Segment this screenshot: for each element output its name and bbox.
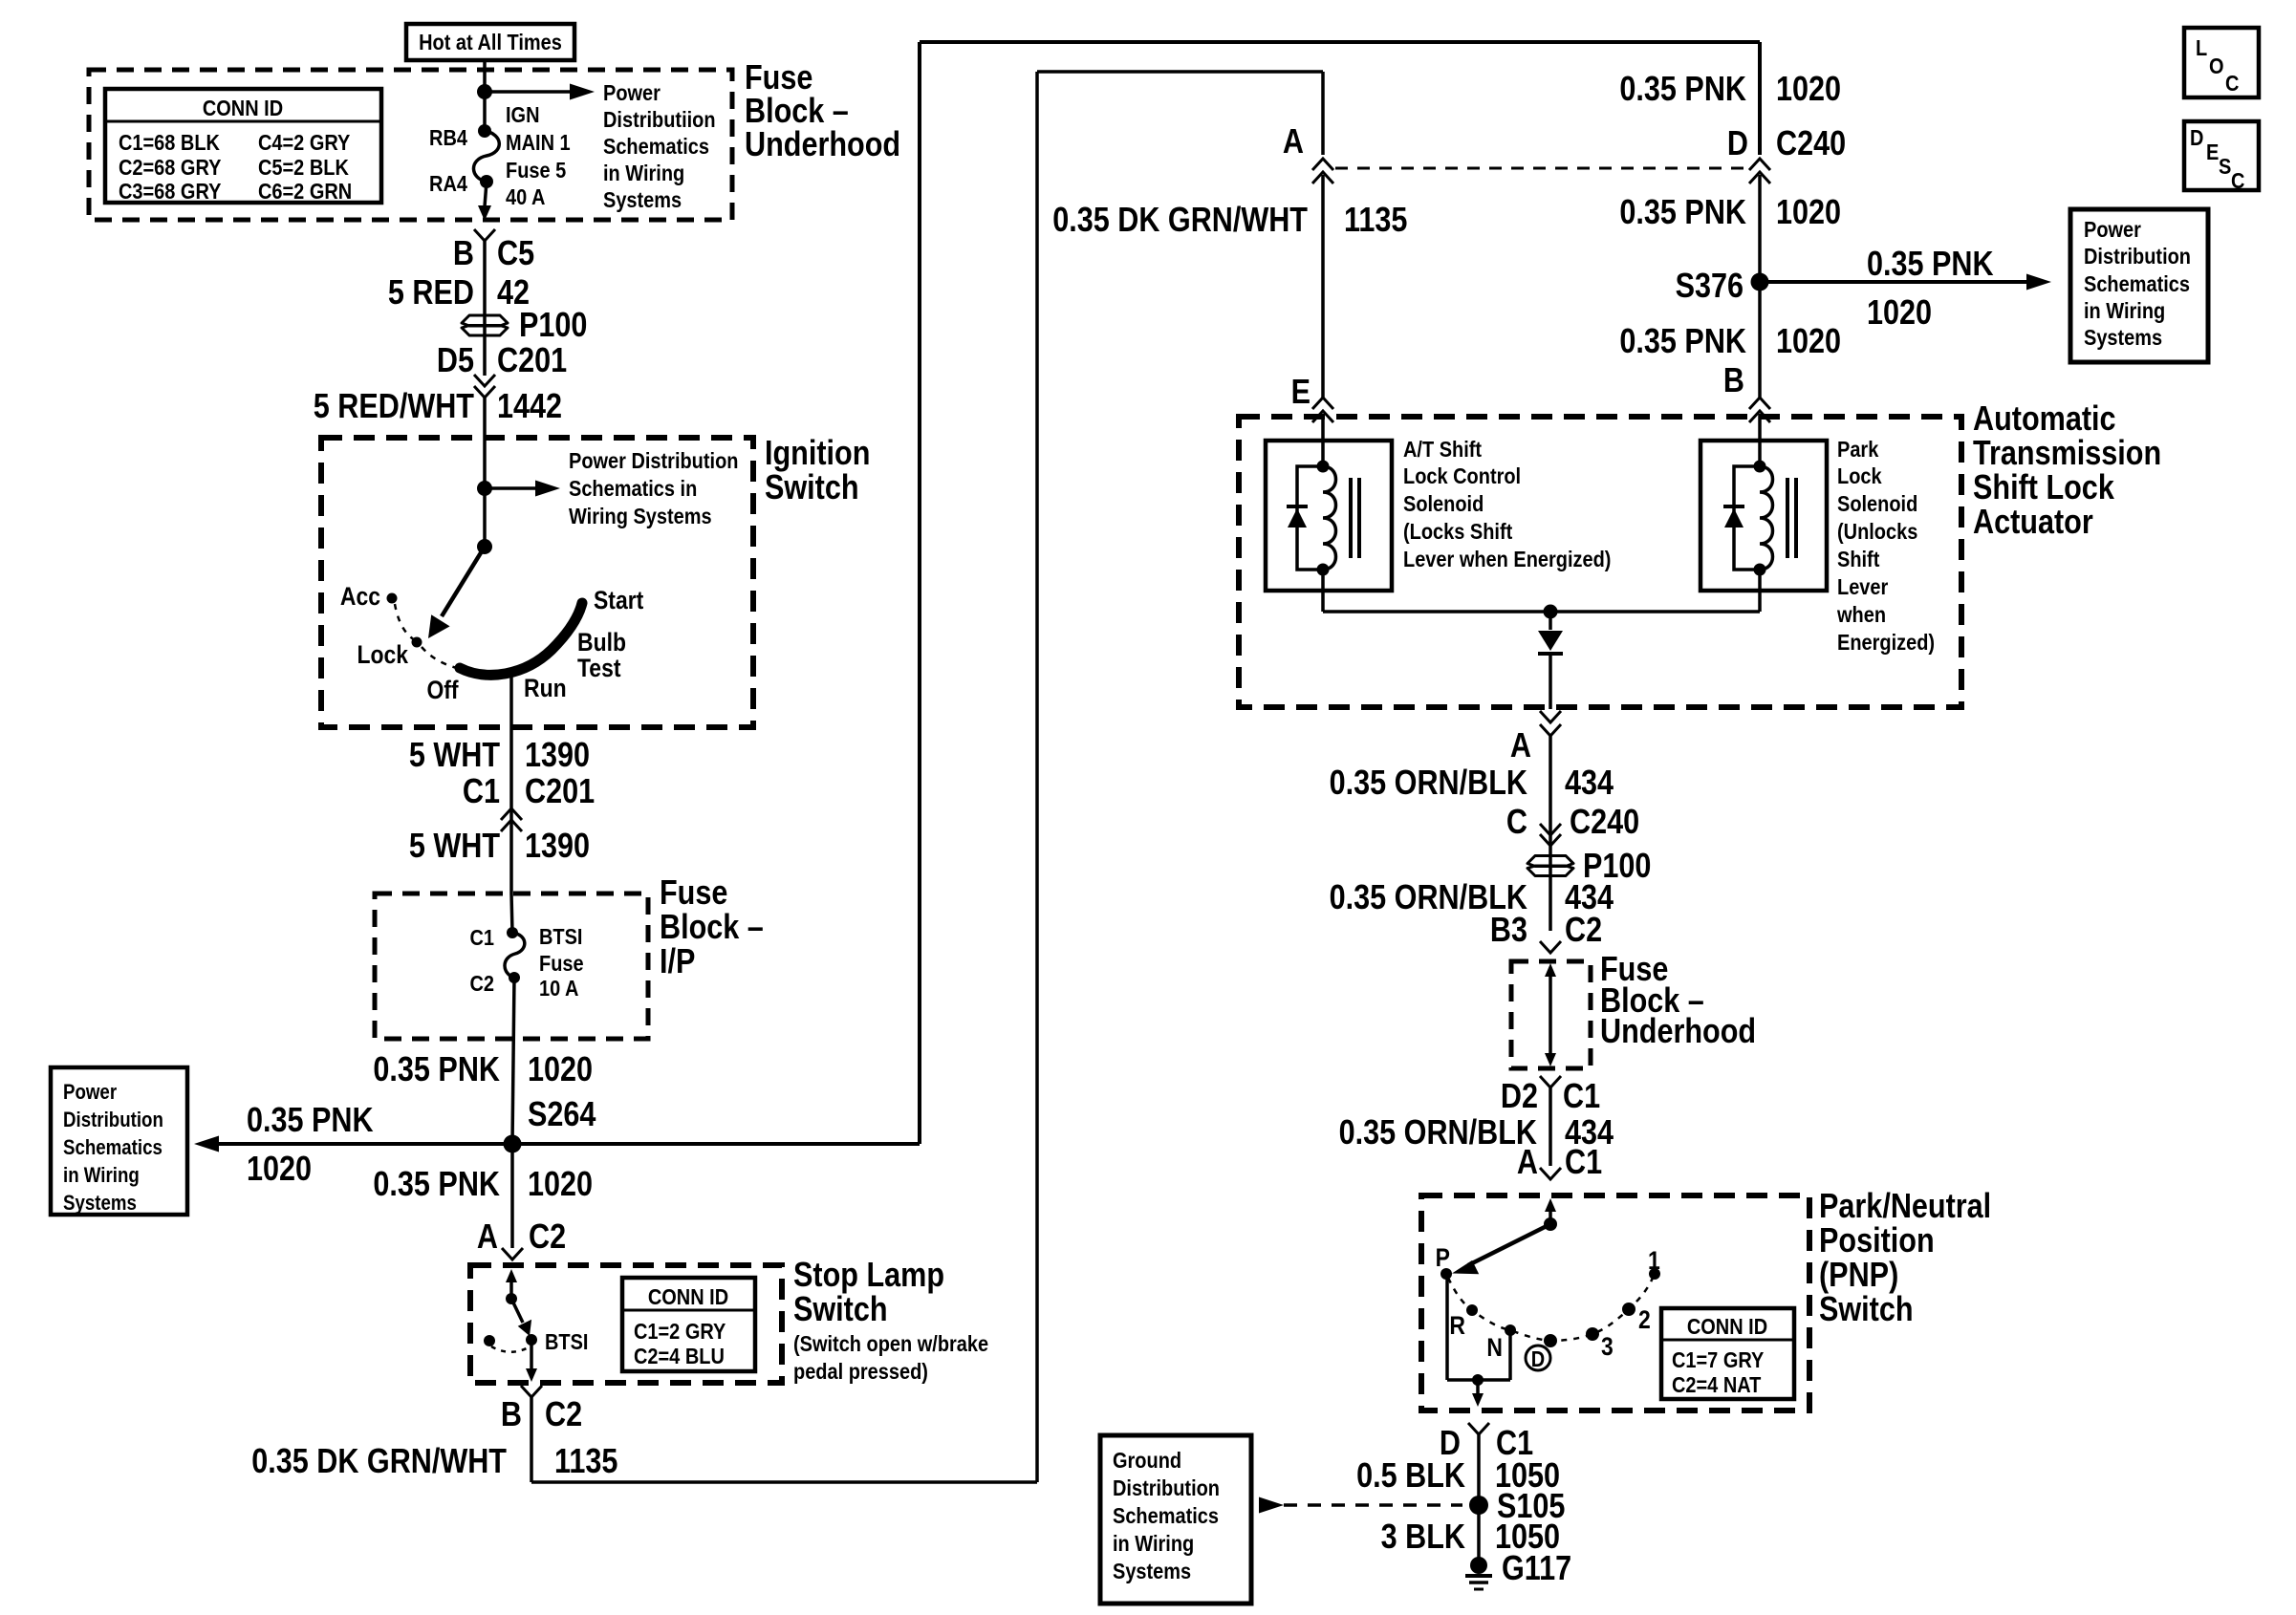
wire label: 0.35 DK GRN/WHT 1135 (top) xyxy=(1052,202,1407,240)
svg-text:C2: C2 xyxy=(1565,912,1602,950)
svg-text:Schematics: Schematics xyxy=(603,133,709,159)
svg-text:C201: C201 xyxy=(497,342,567,380)
svg-text:Shift Lock: Shift Lock xyxy=(1973,469,2114,507)
wire label: 0.35 PNK 1020 (top, D C240) xyxy=(1619,71,1841,109)
wire: BTSI output arrow xyxy=(526,1340,537,1382)
svg-text:(Locks Shift: (Locks Shift xyxy=(1403,518,1512,544)
contact N xyxy=(1486,1324,1516,1362)
svg-text:Switch: Switch xyxy=(1819,1291,1914,1329)
legend box DESC xyxy=(2184,121,2259,193)
svg-text:10 A: 10 A xyxy=(539,975,579,1001)
wire: S264 riser to top rail xyxy=(512,42,1760,1144)
svg-text:Power: Power xyxy=(2084,216,2141,242)
svg-text:Test: Test xyxy=(577,654,621,682)
svg-text:0.35 DK GRN/WHT: 0.35 DK GRN/WHT xyxy=(1052,202,1308,240)
label: Fuse Block - Underhood xyxy=(745,59,900,164)
component box: Fuse Block - I/P (dashed) xyxy=(375,894,648,1039)
connector ID table (stop lamp switch) xyxy=(622,1278,755,1371)
svg-text:C: C xyxy=(2231,167,2245,193)
svg-text:E: E xyxy=(2206,139,2219,164)
wire: P contact to output xyxy=(1447,1274,1510,1380)
connector chevron (C2 below stop lamp switch) xyxy=(521,1386,542,1397)
dashed detent arc xyxy=(395,604,457,668)
svg-text:0.35 PNK: 0.35 PNK xyxy=(1619,323,1746,361)
wire: arrow into switch xyxy=(506,1269,517,1299)
wire: 0.35 PNK to S264 xyxy=(512,978,514,1144)
svg-text:Lock: Lock xyxy=(357,640,408,669)
wire label: 0.35 ORN/BLK 434 (to PNP) xyxy=(1339,1114,1614,1152)
connector chevron (C2 above stop lamp switch) xyxy=(502,1248,523,1260)
wire label: 0.35 PNK 1020 (above S264) xyxy=(373,1051,593,1089)
solenoid U1 coil + diode xyxy=(1287,461,1359,576)
connector C1 pin D labels xyxy=(1440,1425,1533,1463)
svg-text:Acc: Acc xyxy=(340,582,380,611)
wire label: 0.35 ORN/BLK 434 (below P100) xyxy=(1330,879,1614,917)
connector chevron (D C1 below PNP) xyxy=(1468,1423,1489,1434)
svg-text:D: D xyxy=(2190,124,2203,150)
svg-text:B: B xyxy=(453,235,474,273)
wire: 0.5 BLK 1050 to S105 xyxy=(1477,1434,1481,1558)
connector ID table (PNP switch) xyxy=(1661,1308,1794,1399)
fuse: BTSI Fuse 10 A xyxy=(505,927,525,983)
svg-text:Solenoid: Solenoid xyxy=(1837,490,1917,516)
connector chevron pin B / C5 xyxy=(474,229,495,241)
svg-text:1020: 1020 xyxy=(528,1166,593,1204)
ignition switch wiper arm xyxy=(428,547,485,638)
component box: Automatic Transmission Shift Lock Actuator (dashed) xyxy=(1239,417,1961,707)
svg-text:C2=4 BLU: C2=4 BLU xyxy=(634,1343,725,1368)
svg-text:Wiring Systems: Wiring Systems xyxy=(569,503,712,528)
svg-text:Systems: Systems xyxy=(1113,1558,1191,1583)
svg-text:Off: Off xyxy=(426,676,459,704)
svg-text:0.35 PNK: 0.35 PNK xyxy=(247,1102,374,1140)
svg-text:G117: G117 xyxy=(1502,1550,1571,1588)
svg-text:C: C xyxy=(2225,70,2240,96)
wire: S264 to stop lamp switch xyxy=(510,1144,514,1248)
annotation: Power Distribution Schematics in Wiring Systems xyxy=(569,447,738,528)
annotation: Power Distribuition Schematics in Wiring Systems xyxy=(603,79,716,212)
svg-text:5 WHT: 5 WHT xyxy=(409,737,501,775)
svg-text:1135: 1135 xyxy=(1344,202,1407,240)
contact 1 xyxy=(1648,1246,1660,1280)
svg-text:0.35 DK GRN/WHT: 0.35 DK GRN/WHT xyxy=(251,1443,507,1481)
svg-text:in Wiring: in Wiring xyxy=(2084,297,2165,323)
inline connector P100 (grommet, right) xyxy=(1527,848,1651,886)
wire: diode output to pin A xyxy=(1549,654,1552,709)
wire: 0.35 ORN/BLK 434 to PNP switch xyxy=(1549,1087,1552,1166)
svg-text:C2: C2 xyxy=(545,1396,582,1434)
wire: arrow to power distribution reference xyxy=(485,84,595,100)
svg-text:Lever when Energized): Lever when Energized) xyxy=(1403,546,1611,571)
wire label: 0.35 ORN/BLK 434 xyxy=(1330,764,1614,803)
connector chevrons (pin A out of actuator) xyxy=(1540,711,1561,736)
wire label: 5 RED/WHT 1442 xyxy=(314,388,562,426)
svg-text:1442: 1442 xyxy=(497,388,562,426)
svg-text:C1: C1 xyxy=(469,924,494,950)
svg-text:D2: D2 xyxy=(1501,1078,1538,1116)
power feed box "Hot at All Times" xyxy=(406,24,574,60)
contact 2 xyxy=(1622,1303,1651,1334)
svg-text:(Switch open w/brake: (Switch open w/brake xyxy=(793,1330,988,1356)
svg-text:in Wiring: in Wiring xyxy=(603,160,684,185)
svg-text:C1=2 GRY: C1=2 GRY xyxy=(634,1318,726,1344)
svg-text:L: L xyxy=(2196,34,2207,60)
svg-text:1020: 1020 xyxy=(1776,323,1841,361)
connector C201 pin C1 labels xyxy=(463,773,595,811)
svg-text:N: N xyxy=(1486,1333,1503,1362)
wire: battery feed from Hot at All Times xyxy=(483,60,487,131)
svg-text:Hot at All Times: Hot at All Times xyxy=(419,29,562,54)
contact: BTSI xyxy=(526,1328,588,1354)
arrowhead from ground reference box xyxy=(1259,1497,1284,1514)
svg-text:RB4: RB4 xyxy=(429,124,467,150)
wire: solenoid outputs joined xyxy=(1323,570,1760,612)
svg-text:pedal pressed): pedal pressed) xyxy=(793,1358,928,1384)
contact P xyxy=(1436,1243,1452,1280)
contact D (dot) xyxy=(1544,1334,1557,1347)
svg-text:Lock: Lock xyxy=(1837,463,1882,488)
svg-text:Systems: Systems xyxy=(603,186,682,212)
svg-text:Fuse 5: Fuse 5 xyxy=(506,157,566,183)
svg-text:A: A xyxy=(1510,727,1531,765)
svg-text:MAIN 1: MAIN 1 xyxy=(506,129,571,155)
PNP wiper arm xyxy=(1452,1224,1550,1274)
label: Fuse Block - Underhood (small) xyxy=(1600,951,1756,1051)
svg-text:Block –: Block – xyxy=(660,909,764,947)
svg-text:B: B xyxy=(501,1396,522,1434)
wire: 5 RED/WHT into ignition switch xyxy=(483,398,487,488)
node: wiper pivot xyxy=(477,539,492,554)
connector C2 pin B3 labels xyxy=(1490,912,1602,950)
svg-text:Actuator: Actuator xyxy=(1973,504,2093,542)
connector chevron + arrow (pin E into actuator) xyxy=(1312,398,1333,466)
connector chevron (D2 C1 below fuse block) xyxy=(1540,1076,1561,1087)
wire: arrow to PNP output xyxy=(1472,1380,1484,1407)
contact R xyxy=(1449,1304,1478,1340)
svg-text:0.35 PNK: 0.35 PNK xyxy=(1867,246,1994,284)
svg-text:Lock Control: Lock Control xyxy=(1403,463,1521,488)
svg-text:C1: C1 xyxy=(1563,1078,1600,1116)
node: splice S264 xyxy=(504,1135,522,1153)
contact: Lock xyxy=(357,637,422,670)
component box: Fuse Block - Underhood (dashed) xyxy=(89,70,732,220)
svg-text:IGN: IGN xyxy=(506,101,540,127)
diode D1 (series) xyxy=(1538,612,1563,654)
svg-text:E: E xyxy=(1291,374,1310,412)
svg-text:Block –: Block – xyxy=(745,93,849,131)
component box: Park/Neutral Position (PNP) Switch (dashed) xyxy=(1421,1195,1809,1410)
svg-text:C2=68 GRY: C2=68 GRY xyxy=(119,154,222,180)
svg-text:Underhood: Underhood xyxy=(1600,1013,1756,1051)
annotation: A/T Shift Lock Control Solenoid xyxy=(1403,436,1611,571)
svg-text:S264: S264 xyxy=(528,1096,596,1134)
svg-text:A/T Shift: A/T Shift xyxy=(1403,436,1482,462)
svg-text:Schematics: Schematics xyxy=(1113,1502,1219,1528)
connector chevrons C201 xyxy=(474,375,495,398)
svg-text:BTSI: BTSI xyxy=(539,923,582,949)
svg-text:Fuse: Fuse xyxy=(539,950,584,976)
wire label: 3 BLK 1050 xyxy=(1381,1518,1560,1557)
svg-text:CONN ID: CONN ID xyxy=(648,1283,728,1309)
svg-text:S376: S376 xyxy=(1676,268,1744,306)
svg-text:Energized): Energized) xyxy=(1837,629,1935,655)
connector chevron + arrow (pin B into actuator) xyxy=(1749,398,1770,466)
connector ID table (underhood fuse block) xyxy=(105,89,381,204)
svg-text:Switch: Switch xyxy=(765,469,859,507)
svg-text:3 BLK: 3 BLK xyxy=(1381,1518,1465,1557)
svg-text:RA4: RA4 xyxy=(429,170,467,196)
svg-text:BTSI: BTSI xyxy=(545,1328,588,1354)
label: Stop Lamp Switch xyxy=(793,1257,988,1385)
legend box LOC xyxy=(2184,28,2259,97)
svg-text:P100: P100 xyxy=(519,307,587,345)
component box: Fuse Block - Underhood (small, dashed) xyxy=(1511,961,1591,1068)
svg-text:B: B xyxy=(1723,362,1744,400)
svg-text:D5: D5 xyxy=(437,342,474,380)
svg-text:B3: B3 xyxy=(1490,912,1527,950)
svg-text:0.35 ORN/BLK: 0.35 ORN/BLK xyxy=(1330,764,1527,803)
svg-text:in Wiring: in Wiring xyxy=(63,1165,140,1188)
wire: arrow into PNP switch xyxy=(1545,1198,1556,1224)
svg-text:C240: C240 xyxy=(1776,125,1846,163)
svg-text:Distribution: Distribution xyxy=(1113,1475,1220,1500)
svg-text:Systems: Systems xyxy=(2084,324,2162,350)
wire: 0.35 PNK arrow to right power distribution box xyxy=(1760,274,2051,291)
dashed contact arc (PNP) xyxy=(1448,1278,1653,1341)
annotation: Park Lock Solenoid xyxy=(1836,436,1935,655)
contact 3 xyxy=(1586,1327,1614,1361)
svg-text:Distributiion: Distributiion xyxy=(603,106,716,132)
svg-text:Stop Lamp: Stop Lamp xyxy=(793,1257,944,1295)
connector C240 pin C labels xyxy=(1506,804,1639,842)
stop lamp switch arm xyxy=(511,1299,531,1336)
svg-text:Distribution: Distribution xyxy=(63,1109,163,1132)
node: PNP wiper pivot xyxy=(1544,1217,1557,1231)
reference box: Ground Distribution Schematics in Wiring Systems xyxy=(1100,1435,1251,1604)
svg-text:C201: C201 xyxy=(525,773,595,811)
connector chevrons C201 (up) xyxy=(501,808,522,831)
contact label Bulb Test xyxy=(577,628,626,682)
wire: 0.35 ORN/BLK 434 xyxy=(1549,736,1552,931)
svg-text:1390: 1390 xyxy=(525,737,590,775)
svg-text:Transmission: Transmission xyxy=(1973,435,2161,473)
contact: open side xyxy=(484,1335,495,1346)
svg-text:C240: C240 xyxy=(1570,804,1639,842)
svg-text:5 RED: 5 RED xyxy=(388,274,474,312)
svg-text:Schematics: Schematics xyxy=(2084,270,2190,296)
svg-text:Distribution: Distribution xyxy=(2084,243,2191,269)
svg-text:1020: 1020 xyxy=(1776,194,1841,232)
svg-text:Systems: Systems xyxy=(63,1193,137,1216)
svg-text:Power: Power xyxy=(603,79,661,105)
dashed wire: ground distribution reference xyxy=(1284,1503,1462,1507)
ground G117 xyxy=(1465,1550,1571,1589)
svg-text:in Wiring: in Wiring xyxy=(1113,1530,1194,1556)
svg-text:Automatic: Automatic xyxy=(1973,400,2116,439)
svg-text:C3=68 GRY: C3=68 GRY xyxy=(119,178,222,204)
svg-text:0.35 PNK: 0.35 PNK xyxy=(373,1051,500,1089)
svg-text:3: 3 xyxy=(1601,1332,1614,1361)
svg-text:O: O xyxy=(2209,53,2224,78)
svg-text:S: S xyxy=(2219,153,2231,179)
svg-text:Power: Power xyxy=(63,1082,117,1105)
connector chevron (A C1 above PNP) xyxy=(1540,1168,1561,1179)
node: ignition feed junction xyxy=(477,481,492,496)
svg-text:5 RED/WHT: 5 RED/WHT xyxy=(314,388,475,426)
svg-text:Ground: Ground xyxy=(1113,1447,1181,1473)
svg-text:I/P: I/P xyxy=(660,943,695,981)
wire label: 5 WHT 1390 (below C201) xyxy=(409,828,590,866)
connector chevron + arrow (C240 A side) xyxy=(1312,72,1333,187)
wire label: 0.35 PNK 1020 (above S376) xyxy=(1619,194,1841,232)
svg-text:(Unlocks: (Unlocks xyxy=(1837,518,1917,544)
value label: IGN MAIN 1 Fuse 5 40 A xyxy=(506,101,571,209)
svg-text:Fuse: Fuse xyxy=(660,874,727,913)
svg-text:CONN ID: CONN ID xyxy=(1687,1313,1767,1339)
svg-text:0.35 PNK: 0.35 PNK xyxy=(373,1166,500,1204)
label: Automatic Transmission Shift Lock Actuator xyxy=(1973,400,2161,542)
wire label: 0.5 BLK 1050 xyxy=(1356,1457,1560,1496)
svg-text:1135: 1135 xyxy=(554,1443,617,1481)
wire: 0.35 DK GRN/WHT down to pin E xyxy=(1321,187,1325,398)
wire: 0.35 PNK arrow to left power distribution box xyxy=(194,1136,512,1152)
node: feed junction xyxy=(477,84,492,99)
svg-text:Park: Park xyxy=(1837,436,1879,462)
svg-text:Bulb: Bulb xyxy=(577,628,626,657)
connector chevron (B3 C2) xyxy=(1540,941,1561,953)
svg-text:Park/Neutral: Park/Neutral xyxy=(1819,1188,1991,1226)
node: splice S376 xyxy=(1676,268,1769,306)
contact: Acc xyxy=(340,582,398,611)
dashed arc (stop lamp) xyxy=(491,1346,529,1352)
svg-text:C2: C2 xyxy=(469,970,494,996)
svg-text:1: 1 xyxy=(1648,1246,1660,1275)
wire: 0.35 DK GRN/WHT 1135 run to riser xyxy=(531,72,1323,1482)
component box: Ignition Switch (dashed) xyxy=(321,438,753,727)
svg-text:(PNP): (PNP) xyxy=(1819,1257,1898,1295)
dashed connector line C240 xyxy=(1335,167,1747,170)
wire: 0.35 PNK to S376 xyxy=(1758,187,1762,398)
wire: 5 RED circuit 42 xyxy=(483,241,487,376)
svg-text:Position: Position xyxy=(1819,1222,1935,1260)
node: solenoid output junction xyxy=(1544,605,1558,619)
svg-text:0.35 ORN/BLK: 0.35 ORN/BLK xyxy=(1339,1114,1537,1152)
svg-text:C4=2 GRY: C4=2 GRY xyxy=(258,129,351,155)
svg-text:C1: C1 xyxy=(1565,1144,1602,1182)
connector C2 pin B labels xyxy=(501,1396,582,1434)
svg-text:D: D xyxy=(1727,125,1748,163)
svg-text:C: C xyxy=(1506,804,1527,842)
wire: fuse output, arrow to box edge xyxy=(478,182,491,221)
wire label: 0.35 PNK 1020 (below S376) xyxy=(1619,323,1841,361)
svg-text:Schematics in: Schematics in xyxy=(569,475,697,501)
svg-text:C5: C5 xyxy=(497,235,534,273)
svg-text:A: A xyxy=(477,1218,498,1257)
wire label: 0.35 PNK 1020 (below S264) xyxy=(373,1166,593,1204)
svg-text:Switch: Switch xyxy=(793,1291,888,1329)
connector chevrons C240 (C) xyxy=(1540,824,1561,846)
connector C1 pin A labels (PNP) xyxy=(1517,1144,1602,1182)
svg-text:5 WHT: 5 WHT xyxy=(409,828,501,866)
svg-text:Start: Start xyxy=(594,586,644,614)
label: Fuse Block - I/P xyxy=(660,874,764,981)
svg-text:0.35 PNK: 0.35 PNK xyxy=(1619,71,1746,109)
svg-text:40 A: 40 A xyxy=(506,183,546,209)
svg-text:2: 2 xyxy=(1638,1305,1651,1334)
svg-text:C1: C1 xyxy=(463,773,500,811)
fuse: IGN MAIN 1 Fuse 5 40A xyxy=(473,124,499,188)
connector chevron + arrow (C240 D side) xyxy=(1749,159,1770,187)
contact arc: Off-Run-Bulb Test-Start xyxy=(460,603,582,675)
wire: to wiper pivot xyxy=(483,488,487,547)
svg-text:Underhood: Underhood xyxy=(745,126,900,164)
svg-text:C1=7 GRY: C1=7 GRY xyxy=(1672,1346,1765,1372)
svg-text:C6=2 GRN: C6=2 GRN xyxy=(258,178,352,204)
svg-text:Fuse: Fuse xyxy=(745,59,812,97)
svg-text:1020: 1020 xyxy=(1776,71,1841,109)
reference box: Power Distribution Schematics in Wiring Systems (right) xyxy=(2070,209,2208,362)
svg-text:C5=2 BLK: C5=2 BLK xyxy=(258,154,349,180)
contact D (circled label) xyxy=(1526,1346,1550,1371)
svg-text:Ignition: Ignition xyxy=(765,435,870,473)
connector C2 pin A labels xyxy=(477,1218,566,1257)
svg-text:Run: Run xyxy=(524,674,567,702)
svg-text:Power Distribution: Power Distribution xyxy=(569,447,738,473)
label: Park/Neutral Position (PNP) Switch xyxy=(1819,1188,1991,1329)
svg-text:CONN ID: CONN ID xyxy=(203,95,283,120)
solenoid U1: A/T shift lock control solenoid box xyxy=(1266,441,1392,591)
wire label: 0.35 DK GRN/WHT 1135 (bottom) xyxy=(251,1443,617,1481)
svg-text:1020: 1020 xyxy=(1867,294,1932,333)
connector C1 pin D2 labels xyxy=(1501,1078,1600,1116)
wire: double arrow through fuse block xyxy=(1545,963,1556,1066)
svg-text:0.35 PNK: 0.35 PNK xyxy=(1619,194,1746,232)
svg-text:1020: 1020 xyxy=(528,1051,593,1089)
svg-text:Lever: Lever xyxy=(1837,573,1889,599)
svg-text:A: A xyxy=(1283,123,1304,161)
label: Ignition Switch xyxy=(765,435,870,507)
svg-text:1390: 1390 xyxy=(525,828,590,866)
wire label: 5 RED 42 xyxy=(388,274,530,312)
solenoid U2 coil + diode xyxy=(1723,461,1796,576)
inline connector P100 (grommet) xyxy=(462,307,587,345)
svg-text:D: D xyxy=(1531,1346,1545,1371)
svg-text:Schematics: Schematics xyxy=(63,1137,162,1160)
wire label: 5 WHT 1390 xyxy=(409,737,590,775)
svg-text:when: when xyxy=(1836,601,1886,627)
reference box: Power Distribution Schematics in Wiring Systems (left) xyxy=(51,1067,187,1215)
component box: Stop Lamp Switch (dashed) xyxy=(470,1265,782,1383)
svg-text:Shift: Shift xyxy=(1837,546,1879,571)
node: splice S105 xyxy=(1469,1488,1565,1526)
svg-text:C2: C2 xyxy=(529,1218,566,1257)
svg-text:P: P xyxy=(1436,1243,1450,1272)
node: PNP output junction xyxy=(1472,1374,1484,1386)
value label: BTSI Fuse 10 A xyxy=(539,923,584,1001)
connector C240 pin D labels xyxy=(1727,125,1846,163)
connector C201 pin D5 labels xyxy=(437,342,567,380)
svg-text:0.5 BLK: 0.5 BLK xyxy=(1356,1457,1465,1496)
wire into BTSI fuse xyxy=(511,894,512,933)
svg-text:R: R xyxy=(1449,1311,1465,1340)
node: switch input contact xyxy=(506,1293,517,1304)
wire: Run output 5 WHT 1390 xyxy=(509,677,513,894)
svg-text:434: 434 xyxy=(1565,764,1614,803)
svg-text:A: A xyxy=(1517,1144,1538,1182)
svg-text:1020: 1020 xyxy=(247,1151,312,1189)
wire: arrow to power distribution reference (ignition) xyxy=(485,481,560,497)
svg-text:Solenoid: Solenoid xyxy=(1403,490,1484,516)
